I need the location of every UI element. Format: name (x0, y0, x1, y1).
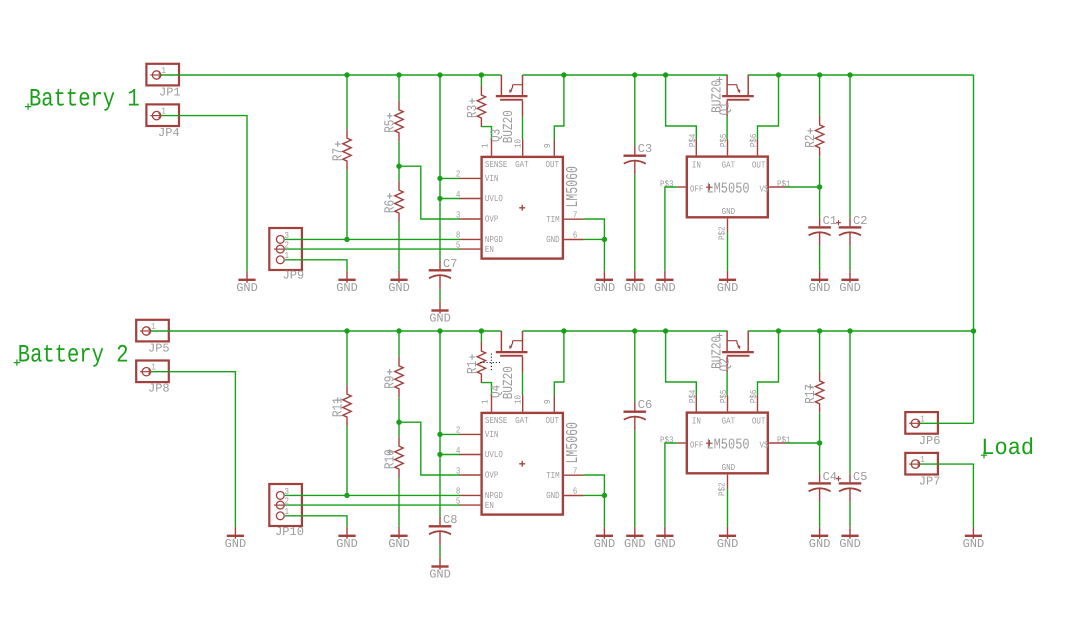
wire JP9 pin 1 to ground (285, 260, 347, 271)
svg-text:R3: R3 (466, 105, 481, 118)
junction rail/C5 (847, 328, 852, 333)
cursor crosshair (480, 354, 501, 372)
origin cross R5 (387, 113, 393, 119)
ground U2 (717, 527, 739, 551)
ground C5 (839, 527, 861, 551)
ground JP8 (225, 527, 247, 551)
connector JP4 (146, 104, 179, 126)
wire C1 to ground (819, 246, 821, 271)
wire R2 to output node (819, 157, 821, 187)
wire GND pin P$2 to ground (727, 488, 729, 526)
wire rail to R7 (346, 75, 348, 129)
wire rail to C6 (634, 331, 636, 402)
junction R7/NPGD (344, 237, 349, 242)
wire output node to C4 (819, 443, 821, 474)
svg-text:JP5: JP5 (148, 341, 170, 355)
wire TIM pin to ground net (583, 475, 604, 495)
wire divider node to OVP pin (399, 422, 460, 475)
svg-text:R9: R9 (383, 376, 398, 389)
wire C7 to ground (439, 289, 441, 301)
svg-text:Battery 1: Battery 1 (29, 86, 140, 114)
connector JP10 (269, 484, 302, 526)
ground R10 (388, 527, 410, 551)
wire TIM pin to ground net (583, 219, 604, 239)
svg-text:JP8: JP8 (148, 381, 170, 395)
wire divider node to R6 (398, 166, 400, 181)
junction rail/R1 (479, 328, 484, 333)
transistor Q3 (496, 75, 528, 116)
junction rail/R7 (344, 72, 349, 77)
svg-text:JP7: JP7 (919, 475, 941, 489)
wire C3 to ground (634, 174, 636, 270)
transistor Q2 (722, 331, 754, 372)
junction rail/C3 (632, 72, 637, 77)
junction rail/R9 (396, 328, 401, 333)
wire R5 to divider node (398, 142, 400, 166)
svg-text:C5: C5 (853, 470, 867, 484)
svg-text:JP9: JP9 (283, 268, 305, 282)
wire GND pin 6 (583, 494, 604, 496)
resistor R5 (395, 101, 403, 142)
wire rail to C7 (439, 75, 441, 261)
wire rail to OUT pin 9 (554, 75, 564, 140)
wire supply rail battery 2 left segment (151, 330, 501, 332)
wire divider node to R10 (398, 422, 400, 437)
wire C6 to ground (634, 430, 636, 526)
capacitor C8 (429, 517, 452, 546)
ground load return (963, 527, 985, 551)
svg-text:C7: C7 (443, 257, 457, 271)
resistor R6 (395, 181, 403, 222)
wire rail to R17 (819, 331, 821, 372)
wire C8 to ground (439, 545, 441, 557)
svg-text:R5: R5 (383, 120, 398, 133)
ground JP9 (336, 271, 358, 295)
svg-text:C1: C1 (823, 214, 837, 228)
ground C6 (624, 527, 646, 551)
origin cross R3 (469, 98, 475, 104)
transistor Q4 (496, 331, 528, 372)
wire supply rail battery 1 right segment (748, 74, 974, 76)
wire rail to C3 (634, 75, 636, 146)
junction UVLO tap (437, 196, 442, 201)
junction rail/OUT sense (561, 72, 566, 77)
junction rail/R2 (817, 72, 822, 77)
junction rail/C2 (847, 72, 852, 77)
capacitor C6 (624, 402, 647, 431)
svg-text:R1: R1 (466, 360, 481, 374)
ground C8 (429, 557, 451, 581)
plus mark C5 (836, 476, 841, 481)
junction UVLO tap (437, 452, 442, 457)
wire rail to C2 (849, 75, 851, 218)
capacitor C4 (808, 474, 831, 503)
svg-text:Q1: Q1 (719, 102, 734, 116)
ground U1 (717, 271, 739, 295)
wire JP9 pin 2 to EN (285, 248, 460, 250)
wire GND pin P$2 to ground (727, 232, 729, 270)
junction rail/R11 (344, 328, 349, 333)
connector JP6 (905, 412, 938, 434)
capacitor C7 (429, 261, 452, 290)
junction VIN tap (437, 432, 442, 437)
svg-text:R6: R6 (383, 200, 398, 213)
wire to VIN pin (440, 433, 460, 435)
wire rail to R1 (480, 331, 482, 342)
junction rail/IN feed (663, 72, 668, 77)
wire JP10 pin 2 to EN (285, 504, 460, 506)
resistor R10 (395, 437, 403, 478)
wire C4 to ground (819, 502, 821, 527)
origin cross Battery 2 (14, 359, 20, 365)
ground C3 (624, 271, 646, 295)
connector JP9 (269, 228, 302, 270)
origin cross R10 (387, 449, 393, 455)
op-amp controller U4 LM5060 (456, 394, 584, 514)
op-amp controller U2 LM5050 (660, 389, 791, 496)
wire to controller ground (603, 495, 605, 526)
wire VS pin P$1 to output node (786, 186, 820, 188)
resistor R17 (815, 372, 823, 413)
svg-text:Q2: Q2 (719, 358, 734, 371)
wire C5 to ground (849, 502, 851, 527)
wire R6 to ground (398, 222, 400, 271)
connector JP5 (136, 320, 169, 342)
origin cross R6 (387, 193, 393, 199)
resistor R9 (395, 357, 403, 398)
resistor R3 (477, 86, 485, 127)
connector JP8 (136, 361, 169, 383)
wire rail to R5 (398, 75, 400, 101)
origin cross Load (981, 452, 987, 458)
svg-text:JP6: JP6 (919, 434, 941, 448)
wire supply rail battery 1 left segment (161, 74, 501, 76)
capacitor C2 (839, 218, 862, 247)
capacitor C3 (624, 146, 647, 175)
wire C2 to ground (849, 246, 851, 271)
wire rail to OUT pin 9 (554, 331, 564, 396)
origin cross Battery 1 (25, 103, 31, 109)
origin cross Q1 (717, 77, 723, 83)
origin cross R7 (335, 141, 341, 147)
svg-text:R2: R2 (804, 135, 819, 148)
capacitor C1 (808, 218, 831, 247)
wire rail to IN pin P$4 (666, 75, 697, 140)
wire to UVLO pin (440, 454, 460, 456)
junction rail/R3 (479, 72, 484, 77)
wire rail to C5 (849, 331, 851, 474)
junction rail/OUT feed (776, 72, 781, 77)
ground JP4 (236, 271, 258, 295)
origin cross R17 (808, 384, 814, 390)
wire R11 to NPGD net (346, 426, 348, 495)
wire supply rail battery 2 right segment (748, 330, 974, 332)
junction rail/OUT feed (776, 328, 781, 333)
wire rail to OUT pin P$6 (758, 75, 779, 140)
resistor R11 (343, 385, 351, 426)
junction R11/NPGD (344, 493, 349, 498)
junction VS/output node (817, 184, 822, 189)
wire OFF pin P$3 to ground (665, 443, 677, 527)
wire output bus to load (973, 75, 975, 423)
wire divider node to OVP pin (399, 166, 460, 219)
junction divider node R9/R10 (396, 420, 401, 425)
junction rail/VIN column (437, 72, 442, 77)
ground JP10 (336, 527, 358, 551)
svg-text:C2: C2 (853, 214, 867, 228)
junction rail/VIN column (437, 328, 442, 333)
wire JP7 to ground (920, 464, 973, 527)
ground R6 (388, 271, 410, 295)
op-amp controller U1 LM5050 (660, 133, 791, 240)
plus mark C2 (836, 220, 841, 225)
wire rail to R3 (480, 75, 482, 86)
capacitor C5 (839, 474, 862, 503)
svg-text:Battery 2: Battery 2 (18, 342, 129, 370)
svg-text:Load: Load (981, 435, 1034, 461)
origin cross R11 (335, 397, 341, 403)
junction TIM/GND (602, 493, 607, 498)
junction rail/R17 (817, 328, 822, 333)
svg-text:C3: C3 (638, 142, 652, 156)
junction rail/IN feed (663, 328, 668, 333)
junction rail/OUT sense (561, 328, 566, 333)
ground C2 (839, 271, 861, 295)
wire Q4 gate to GAT pin 10 (522, 372, 524, 396)
svg-text:C6: C6 (638, 398, 652, 412)
wire JP9 pin 3 to NPGD (285, 238, 460, 240)
svg-text:C4: C4 (823, 470, 837, 484)
junction divider node R5/R6 (396, 164, 401, 169)
wire GND pin 6 (583, 238, 604, 240)
wire Q1 gate to GAT pin P$5 (726, 116, 728, 140)
origin cross Q2 (717, 333, 723, 339)
svg-text:R7: R7 (331, 148, 346, 161)
junction rail/R5 (396, 72, 401, 77)
wire rail to OUT pin P$6 (758, 331, 779, 396)
op-amp controller U3 LM5060 (456, 138, 584, 258)
transistor Q1 (722, 75, 754, 116)
wire R17 to output node (819, 413, 821, 443)
ground U4 (594, 527, 616, 551)
ground C7 (429, 301, 451, 325)
wire Q3 gate to GAT pin 10 (522, 116, 524, 140)
svg-text:JP10: JP10 (275, 525, 304, 539)
ground U3 (594, 271, 616, 295)
wire JP10 pin 1 to ground (285, 516, 347, 527)
resistor R1 (477, 342, 485, 383)
wire JP6 to output bus (920, 422, 973, 424)
ground OFF pin (654, 271, 676, 295)
connector JP7 (905, 453, 938, 475)
wire OFF pin P$3 to ground (665, 187, 677, 271)
wire rail to R9 (398, 331, 400, 357)
svg-text:C8: C8 (443, 513, 457, 527)
resistor R2 (815, 116, 823, 157)
wire R10 to ground (398, 478, 400, 527)
resistor R7 (343, 129, 351, 170)
junction battery 2 rail/output bus (971, 328, 976, 333)
ground C4 (809, 527, 831, 551)
wire to UVLO pin (440, 198, 460, 200)
wire supply rail battery 1 middle segment (523, 74, 728, 76)
origin cross R1 (469, 354, 475, 360)
wire rail to C8 (439, 331, 441, 517)
wire R3 to SENSE pin 1 (481, 127, 491, 140)
wire to controller ground (603, 239, 605, 270)
wire JP4 to ground (161, 116, 247, 271)
junction rail/C6 (632, 328, 637, 333)
wire output node to C1 (819, 187, 821, 218)
ground C1 (809, 271, 831, 295)
wire Q2 gate to GAT pin P$5 (726, 372, 728, 396)
wire JP8 to ground (151, 372, 235, 527)
junction TIM/GND (602, 237, 607, 242)
svg-text:JP1: JP1 (159, 85, 181, 99)
origin cross R2 (808, 128, 814, 134)
wire R7 to NPGD net (346, 170, 348, 239)
wire supply rail battery 2 middle segment (523, 330, 728, 332)
wire JP10 pin 3 to NPGD (285, 494, 460, 496)
wire to VIN pin (440, 177, 460, 179)
wire VS pin P$1 to output node (786, 442, 820, 444)
wire rail to IN pin P$4 (666, 331, 697, 396)
wire R9 to divider node (398, 398, 400, 422)
wire R1 to SENSE pin 1 (481, 383, 491, 396)
junction VS/output node (817, 440, 822, 445)
connector JP1 (146, 64, 179, 86)
junction VIN tap (437, 176, 442, 181)
ground OFF pin (654, 527, 676, 551)
wire rail to R2 (819, 75, 821, 116)
svg-text:JP4: JP4 (158, 126, 180, 140)
origin cross R9 (387, 369, 393, 375)
wire rail to R11 (346, 331, 348, 385)
